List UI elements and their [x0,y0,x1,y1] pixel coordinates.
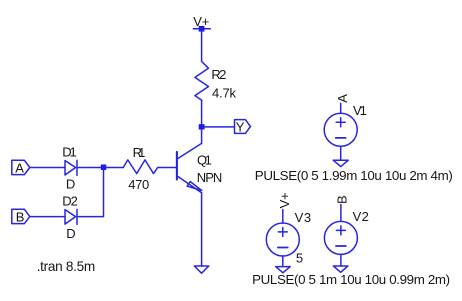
wire D1 to junction [77,167,104,169]
source V2 [324,205,357,267]
svg-text:NPN: NPN [197,170,223,185]
flag Y [235,120,251,134]
svg-text:V+: V+ [277,192,292,208]
wire collector to node [201,130,203,144]
resistor R1 [123,160,158,174]
wire node to Y flag [202,126,235,128]
svg-text:D: D [66,176,75,191]
resistor R2 [195,61,209,100]
wire junction to R1 [104,167,124,169]
svg-text:R2: R2 [211,67,226,82]
source V1 [324,103,357,160]
svg-text:470: 470 [128,177,149,192]
svg-text:B: B [16,210,25,225]
svg-text:R1: R1 [133,145,146,160]
ground main [194,266,209,273]
ground V2 [333,266,348,272]
junction node A/B [101,165,107,171]
svg-text:Y: Y [236,120,245,135]
svg-text:4.7k: 4.7k [212,86,237,101]
wire A to D1 [30,167,65,169]
transistor Q1 [177,143,202,192]
svg-text:.tran 8.5m: .tran 8.5m [37,259,95,274]
ground V3 [276,267,291,273]
svg-text:A: A [15,161,24,176]
node junction at collector [199,124,205,129]
flag B [12,209,30,223]
svg-text:B: B [335,195,350,204]
wire B to D2 [30,216,65,218]
svg-text:Q1: Q1 [197,153,212,168]
svg-text:V+: V+ [193,14,209,29]
svg-text:V1: V1 [353,103,367,118]
wire R2 to node [201,100,203,127]
power symbol V+ [193,26,210,32]
svg-text:PULSE(0 5 1m 10u 10u 0.99m 2m): PULSE(0 5 1m 10u 10u 0.99m 2m) [252,272,450,287]
svg-text:V2: V2 [353,209,369,224]
wire junction down to B branch [77,168,104,217]
svg-text:D2: D2 [62,194,78,209]
wire emitter to ground [201,193,203,266]
svg-text:PULSE(0 5 1.99m 10u 10u 2m 4m): PULSE(0 5 1.99m 10u 10u 2m 4m) [255,168,453,183]
diode D2 [65,209,77,224]
ground V1 [333,160,348,166]
svg-text:A: A [335,94,350,103]
svg-text:D: D [66,226,75,241]
svg-text:D1: D1 [62,145,76,160]
svg-text:5: 5 [296,250,303,265]
svg-text:V3: V3 [295,210,312,225]
diode D1 [65,160,77,175]
source V3 [266,210,299,267]
wire V+ to R2 [201,29,203,62]
flag A [12,160,30,174]
wire R1 to base [158,167,177,169]
